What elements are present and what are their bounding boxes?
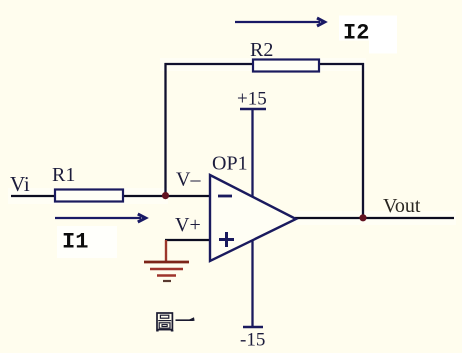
- +15 supply bar: [240, 108, 266, 110]
- op-amp U1 triangle: [210, 175, 296, 261]
- jpeg halo band along input wire: [8, 188, 168, 204]
- white halo patch behind I2 label: [339, 16, 370, 41]
- svg-text:R1: R1: [52, 164, 75, 186]
- wire: junction to op-amp V- input: [164, 195, 210, 197]
- wire: feedback vertical up from junction: [164, 63, 166, 197]
- 圖 top inner mouth: [160, 315, 168, 318]
- 圖 middle bar: [158, 320, 171, 322]
- current arrow I1: [55, 217, 141, 219]
- ground bar 4: [163, 280, 171, 282]
- 一 stroke with right serif: [176, 319, 194, 321]
- svg-text:R2: R2: [250, 39, 273, 61]
- svg-text:-15: -15: [240, 330, 265, 351]
- jpeg halo band along top feedback wire: [160, 58, 366, 71]
- op-amp minus sign: [218, 195, 232, 198]
- wire: feedback vertical down to output node: [362, 63, 364, 219]
- resistor R2: [253, 60, 319, 72]
- wire: V+ input from ground stem: [165, 239, 210, 241]
- svg-text:V+: V+: [175, 214, 201, 236]
- resistor R1: [55, 190, 123, 202]
- current arrow I2: [235, 21, 320, 23]
- svg-text:Vi: Vi: [10, 172, 30, 196]
- ground bar 1: [144, 261, 189, 264]
- node: output junction: [359, 214, 366, 221]
- wire: feedback top horizontal to R2: [165, 63, 255, 65]
- op-amp plus sign: [219, 238, 234, 241]
- wire: op-amp output to Vout: [295, 217, 454, 219]
- wire: Vi input to R1: [11, 195, 56, 197]
- node: inverting input junction: [162, 192, 169, 199]
- -15 supply bar: [243, 326, 263, 328]
- svg-text:I1: I1: [62, 230, 88, 255]
- 圖 bottom box: [159, 323, 170, 328]
- 圖 outer box: [157, 313, 172, 330]
- 圖 outer box feet: [156, 330, 158, 332]
- figure caption 圖一 (drawn glyphs): [156, 313, 194, 331]
- +15 supply wire down to op-amp: [251, 109, 253, 205]
- wire: R2 right side to right vertical: [318, 63, 364, 65]
- white halo patch behind I1 label: [57, 226, 117, 258]
- ground stem: [165, 240, 167, 262]
- ground bar 3: [157, 274, 176, 277]
- ground bar 2: [150, 268, 183, 271]
- svg-text:Vout: Vout: [383, 195, 421, 217]
- svg-text:V–: V–: [176, 169, 201, 191]
- svg-text:+15: +15: [237, 89, 267, 110]
- wire: R1 to inverting-input junction: [122, 195, 166, 197]
- jpeg halo band along output wire: [296, 211, 456, 225]
- -15 supply wire from op-amp bottom: [251, 232, 253, 327]
- 圖 inner dot box: [162, 325, 167, 327]
- svg-text:I2: I2: [343, 21, 369, 46]
- svg-text:OP1: OP1: [212, 153, 248, 175]
